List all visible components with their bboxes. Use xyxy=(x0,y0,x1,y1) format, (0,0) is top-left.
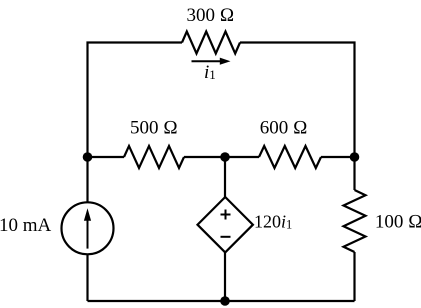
resistor 600ohm xyxy=(259,146,321,168)
wire diamond to bottom node xyxy=(224,252,226,301)
node C right junction dot xyxy=(350,152,360,162)
wire top-right segment xyxy=(240,43,355,158)
svg-text:600 Ω: 600 Ω xyxy=(260,117,308,138)
current source arrow xyxy=(84,208,91,248)
svg-text:500 Ω: 500 Ω xyxy=(130,117,178,138)
wire bottom xyxy=(88,300,355,302)
current source I1 circle xyxy=(62,202,114,254)
svg-text:10 mA: 10 mA xyxy=(0,215,52,236)
node B middle junction dot xyxy=(220,152,230,162)
minus sign in diamond xyxy=(221,236,231,238)
wire right node to resistor xyxy=(353,157,355,190)
wire left node to current source xyxy=(86,157,88,202)
current i1 arrow xyxy=(192,58,231,65)
wire current source to bottom xyxy=(86,255,88,302)
wire top-left segment xyxy=(88,43,183,158)
plus sign in diamond xyxy=(221,210,231,220)
wire middle right xyxy=(321,156,355,158)
node D bottom junction dot xyxy=(220,296,230,306)
wire resistor to bottom xyxy=(353,252,355,301)
resistor 100ohm vertical xyxy=(344,190,366,252)
resistor R1 300ohm top xyxy=(182,32,240,54)
svg-text:300 Ω: 300 Ω xyxy=(187,5,235,26)
wire middle center xyxy=(184,156,259,158)
resistor 500ohm xyxy=(124,146,184,168)
dependent source diamond xyxy=(198,197,253,252)
wire middle left xyxy=(88,156,125,158)
svg-text:100 Ω: 100 Ω xyxy=(375,212,421,233)
wire middle node to diamond xyxy=(224,157,226,197)
node A left junction dot xyxy=(83,152,93,162)
